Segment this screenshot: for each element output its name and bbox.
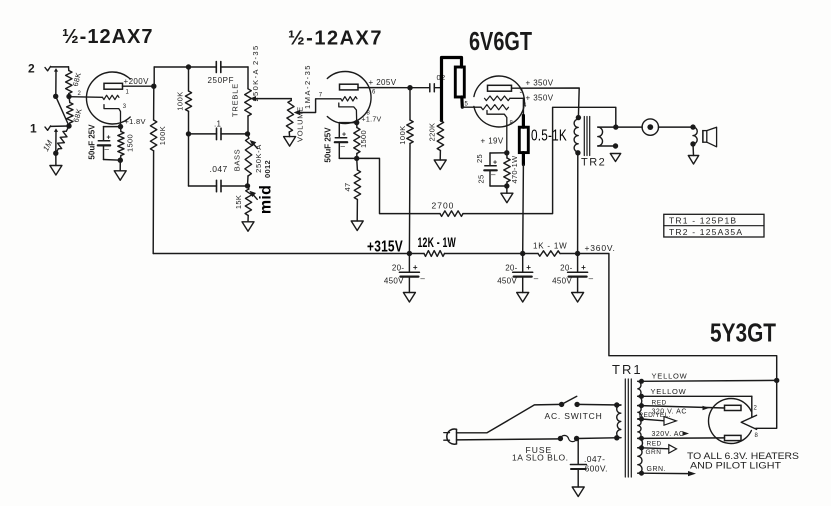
V1 cathode <box>104 105 121 127</box>
wire 250PF to treble <box>221 67 248 89</box>
AC switch blade <box>562 396 577 404</box>
node jack2 shunt <box>53 94 58 99</box>
svg-text:TR2: TR2 <box>581 157 606 169</box>
output jack <box>642 119 658 135</box>
svg-text:AND PILOT LIGHT: AND PILOT LIGHT <box>690 461 781 472</box>
wire to line cap <box>577 439 579 465</box>
label AND PILOT LIGHT <box>690 461 781 472</box>
wire TR2 secondary top <box>598 126 642 128</box>
grid stopper thick wire <box>442 58 462 121</box>
wire 6V6 plate to TR2 <box>512 88 580 118</box>
svg-text:TREBLE: TREBLE <box>231 83 240 117</box>
wire TR2 primary to +360V rail <box>577 153 579 254</box>
resistor 47 <box>354 158 360 221</box>
wire TR2 secondary bottom <box>598 145 616 147</box>
node 6V6 cathode bottom <box>504 183 509 188</box>
label RED/YEL. <box>639 412 671 419</box>
svg-text:.047: .047 <box>210 164 228 174</box>
svg-text:+: + <box>107 135 111 142</box>
svg-text:+: + <box>413 263 418 272</box>
node 6V6 cathode <box>504 150 509 155</box>
wire to 6V6 grid <box>462 106 481 108</box>
wire RED/YEL center tap <box>642 419 665 421</box>
svg-text:+360V.: +360V. <box>585 243 616 253</box>
V1 grid <box>69 95 119 99</box>
resistor 2700 <box>440 211 463 217</box>
svg-text:GRN.: GRN. <box>647 466 667 473</box>
svg-text:YELLOW: YELLOW <box>652 372 688 381</box>
node grid junction V1 <box>66 94 71 99</box>
wire to 250PF <box>189 66 217 68</box>
jack 1 shunt contact <box>54 128 58 153</box>
potentiometer 15K mid <box>245 186 252 222</box>
svg-text:2700: 2700 <box>432 201 455 211</box>
svg-text:.047-: .047- <box>584 454 605 464</box>
ground (TR2 secondary) <box>610 154 620 162</box>
svg-text:YELLOW: YELLOW <box>651 387 687 396</box>
V1 pin 2 <box>78 91 82 97</box>
svg-text:–: – <box>341 142 346 151</box>
label 25 (bottom) <box>476 175 485 184</box>
label +1.7V <box>362 117 382 124</box>
svg-text:47: 47 <box>343 183 352 192</box>
switch contact left <box>559 402 564 407</box>
svg-text:450V: 450V <box>552 277 572 286</box>
capacitor .02 <box>430 84 442 92</box>
label .047- <box>584 454 605 464</box>
label 1M <box>41 139 54 153</box>
node bass bottom <box>245 183 250 188</box>
node V2 cathode bottom <box>354 156 359 161</box>
node TR2 primary bottom <box>575 150 580 155</box>
tube 6V6 envelope <box>474 76 525 127</box>
svg-text:50uF 25V: 50uF 25V <box>323 127 332 163</box>
ground (volume) <box>284 137 296 147</box>
wire B+ rail left <box>153 253 409 255</box>
wire line cap to ground <box>577 469 579 487</box>
svg-text:1K - 1W: 1K - 1W <box>533 242 568 251</box>
label +205V <box>369 78 397 87</box>
V2 plate <box>340 84 359 90</box>
5Y3 pin 8 <box>755 433 759 439</box>
ground (filter 2) <box>517 293 529 303</box>
node TR1 tap y396 <box>639 394 644 399</box>
TR2 primary winding <box>574 119 578 152</box>
svg-text:8: 8 <box>755 433 759 439</box>
6V6 pin 4 <box>523 103 527 109</box>
ground (filter 1) <box>403 293 415 303</box>
label RED (top) <box>652 400 667 407</box>
label 68K (input 1) <box>71 107 83 123</box>
svg-text:3: 3 <box>123 104 127 110</box>
label 320 V. AC (top) <box>652 409 687 416</box>
volume wiper to V2 grid <box>294 99 341 115</box>
wire +360V to rectifier riser <box>578 254 777 429</box>
V2 pin 7 <box>319 93 323 99</box>
label 50uF 25V (V1) <box>87 124 96 160</box>
V1 pin 3 <box>123 104 127 110</box>
capacitor .047-600V <box>570 465 586 470</box>
wire .047 cap right <box>221 185 248 187</box>
wire YELLOW 1 (5V to B+) <box>642 379 777 382</box>
capacitor 250PF <box>216 62 221 73</box>
potentiometer BASS 250K-A <box>245 134 252 186</box>
svg-text:mid: mid <box>258 185 275 214</box>
speaker horn <box>703 127 717 147</box>
svg-text:+: + <box>342 132 346 139</box>
svg-text:15K: 15K <box>234 195 243 209</box>
svg-text:320V. AC: 320V. AC <box>652 431 685 438</box>
svg-text:20-: 20- <box>392 264 404 273</box>
node TR1 primary top <box>614 402 619 407</box>
svg-text:GRN: GRN <box>646 449 662 456</box>
wire rail to 12K <box>409 253 424 255</box>
label +350V (screen) <box>526 94 554 103</box>
label 600V. <box>585 464 608 474</box>
node +205V <box>407 85 412 90</box>
bass wiper <box>250 140 258 149</box>
label TO ALL 6.3V HEATERS <box>687 451 799 462</box>
wire cathode cap bottom <box>104 145 121 160</box>
svg-text:–: – <box>491 170 496 179</box>
arrow mark (top plate feed) <box>703 406 710 411</box>
node speaker top <box>690 124 695 129</box>
capacitor .1 <box>217 128 222 139</box>
capacitor .047 <box>217 180 222 191</box>
wire to 6V6 cathode ground <box>506 186 508 193</box>
label 47 <box>343 183 352 192</box>
wire to V1 cathode ground <box>119 160 121 171</box>
svg-text:5Y3GT: 5Y3GT <box>710 318 776 348</box>
wire cathode cap top <box>104 127 121 141</box>
svg-text:½-12AX7: ½-12AX7 <box>288 28 383 50</box>
ground (V1 cathode) <box>114 171 126 181</box>
wire RED/GRN heater tap <box>642 448 669 449</box>
svg-text:25: 25 <box>476 175 485 184</box>
node V2 cathode <box>354 120 359 125</box>
label .1 <box>214 120 222 129</box>
node treble bottom <box>245 131 250 136</box>
node TR1 primary bottom <box>614 435 619 440</box>
svg-text:–: – <box>105 145 110 154</box>
resistor 1M <box>56 126 69 153</box>
svg-text:½-12AX7: ½-12AX7 <box>62 26 154 48</box>
5Y3 plate (top) <box>725 405 742 410</box>
6V6 pin 3 <box>520 89 524 95</box>
svg-text:2: 2 <box>28 62 35 76</box>
node tone mid junction <box>186 131 191 136</box>
label GRN (heater) <box>646 449 662 456</box>
wire V2 plate to +205V node <box>358 87 410 89</box>
tube 5Y3 envelope <box>709 399 752 444</box>
label 12K - 1W <box>418 235 457 250</box>
node tone stack top <box>186 64 191 69</box>
label 320V. AC (bottom) <box>652 431 685 438</box>
label 1MA-2-35 <box>303 64 312 109</box>
ground (input) <box>50 166 62 176</box>
label 6V6GT <box>469 26 532 56</box>
AC plug <box>444 429 457 444</box>
svg-text:1M: 1M <box>41 139 54 153</box>
label TR1 <box>612 362 643 377</box>
wire 1K to node3 <box>560 253 578 255</box>
wire plug neutral <box>457 439 561 440</box>
label AC. SWITCH <box>545 411 603 421</box>
wire switch to TR1 <box>577 403 621 406</box>
svg-text:6: 6 <box>372 90 376 96</box>
TR1 primary winding <box>617 405 621 438</box>
svg-text:450V: 450V <box>497 277 517 286</box>
label 100K (V1 plate load) <box>158 126 167 146</box>
svg-text:+ 350V: + 350V <box>526 79 554 88</box>
resistor 220K <box>437 121 443 161</box>
node TR2 secondary ground <box>613 143 618 148</box>
svg-text:50uF 25V: 50uF 25V <box>87 124 96 160</box>
tube V2 envelope <box>327 72 371 124</box>
TR1 core <box>625 379 631 477</box>
wire .1 cap right <box>221 133 248 135</box>
V2 pin 8 <box>367 111 371 117</box>
svg-text:–: – <box>534 274 539 283</box>
tube V1 envelope <box>86 72 130 124</box>
label YELLOW 2 <box>651 387 687 396</box>
label .02 <box>437 73 446 82</box>
wire screen resistor to rail <box>522 165 525 254</box>
resistor 100K (V1 plate load) <box>150 86 156 253</box>
node TR1 tap y473 <box>639 471 644 476</box>
label 0.5-1K <box>531 128 567 145</box>
TR2 core <box>584 117 589 156</box>
wire NFB to output jack <box>463 107 616 213</box>
label 470-1W <box>510 155 519 184</box>
svg-text:+ 19V: + 19V <box>481 137 504 146</box>
svg-text:5: 5 <box>465 102 469 108</box>
label 2700 <box>432 201 455 211</box>
svg-text:2: 2 <box>78 91 82 97</box>
label RED (heater) <box>647 441 662 448</box>
6V6 screen grid <box>485 96 511 101</box>
label 68K (input 2) <box>71 71 83 87</box>
svg-text:450V: 450V <box>384 277 404 286</box>
svg-text:20-: 20- <box>560 264 572 273</box>
svg-text:AC. SWITCH: AC. SWITCH <box>545 411 603 421</box>
node jack1 tip <box>66 123 71 128</box>
label 1500 (V1) <box>125 134 134 152</box>
wire RED 320VAC (top plate) <box>642 406 725 408</box>
V2 grid <box>341 97 357 101</box>
label 250PF <box>208 76 235 85</box>
svg-text:3: 3 <box>520 89 524 95</box>
label 5Y3GT <box>710 318 776 348</box>
wire jack2 tip to 68K <box>51 66 69 68</box>
svg-text:100K: 100K <box>175 91 184 111</box>
jack 2 shunt contact <box>54 68 58 96</box>
label .047 <box>210 164 228 174</box>
wire +200V node up <box>154 67 188 86</box>
wire jack to speaker <box>659 126 694 128</box>
capacitor 20uF 450V (filter 1) <box>384 254 426 293</box>
V2 cathode <box>339 103 357 123</box>
grid stopper lower thick wire <box>460 97 464 107</box>
svg-text:+315V: +315V <box>367 239 403 256</box>
capacitor 20uF 450V (filter 2) <box>497 254 539 293</box>
svg-text:250K-A: 250K-A <box>254 144 263 173</box>
label 100K (V2 plate load) <box>398 125 407 145</box>
parts table <box>664 214 764 237</box>
TR1 secondary winding <box>638 381 643 473</box>
label 0012 (bass cap) <box>263 160 272 178</box>
6V6 plate <box>488 85 512 91</box>
fuse element <box>560 435 576 441</box>
V1 plate <box>104 83 123 89</box>
ground (speaker) <box>688 156 698 165</box>
node +315V <box>407 251 412 256</box>
label TREBLE <box>231 83 240 117</box>
label 15K <box>234 195 243 209</box>
svg-text:+: + <box>581 263 586 272</box>
mid wiper <box>249 191 257 200</box>
switch contact right <box>574 402 579 407</box>
node TR1 tap y381 <box>639 379 644 384</box>
svg-text:–: – <box>589 274 594 283</box>
capacitor 50uF 25V (V2) <box>335 132 347 151</box>
svg-text:BASS: BASS <box>232 149 241 171</box>
TR2 secondary winding <box>598 127 603 146</box>
label FUSE <box>526 445 553 455</box>
ground (line cap) <box>572 487 584 497</box>
svg-text:470-1W: 470-1W <box>510 155 519 184</box>
svg-text:250K-A 2-35: 250K-A 2-35 <box>251 44 260 101</box>
node V1 cathode bottom <box>118 158 123 163</box>
svg-text:2: 2 <box>754 406 758 412</box>
screen resistor thick lead top <box>522 116 525 128</box>
fuse contact left <box>558 436 563 441</box>
resistor 12K-1W <box>424 251 445 257</box>
wire jack1 tip <box>51 125 69 127</box>
ground (mid pot) <box>242 222 254 232</box>
svg-text:1A SLO BLO.: 1A SLO BLO. <box>512 453 569 463</box>
label +315V <box>367 239 403 256</box>
label YELLOW 1 <box>652 372 688 381</box>
6V6 pin 8 <box>510 121 514 127</box>
wire 25uF cap top <box>490 153 507 166</box>
svg-text:1MA-2-35: 1MA-2-35 <box>303 64 312 109</box>
svg-text:0012: 0012 <box>263 160 272 178</box>
svg-text:+: + <box>493 160 497 167</box>
svg-text:1500: 1500 <box>125 134 134 152</box>
label 100K (tone slope) <box>175 91 184 111</box>
wire to input ground <box>55 153 57 165</box>
ground (6V6 cathode) <box>501 193 513 203</box>
label mid <box>258 185 275 214</box>
svg-text:1500: 1500 <box>359 130 368 148</box>
label 250K-A (bass) <box>254 144 263 173</box>
potentiometer TREBLE 250K-A <box>245 89 252 134</box>
input jack 2 <box>28 62 51 76</box>
svg-text:TR1: TR1 <box>612 362 643 377</box>
node +360V <box>575 251 580 256</box>
chassis arrow (heater tap) <box>669 445 677 453</box>
wire 25uF cap bottom <box>490 170 507 186</box>
wire NFB from cathode <box>357 158 440 213</box>
svg-text:100K: 100K <box>158 126 167 146</box>
label 50uF 25V (V2) <box>323 127 332 163</box>
label +350V (plate) <box>526 79 554 88</box>
label +19V <box>481 137 504 146</box>
label +1.8V <box>125 117 146 126</box>
svg-text:25: 25 <box>475 154 484 163</box>
svg-text:7: 7 <box>319 93 323 99</box>
resistor 100K (V2 plate load) <box>407 88 413 254</box>
svg-text:RED: RED <box>647 441 662 448</box>
label half-12AX7 stage 2 <box>288 28 383 50</box>
6V6 control grid <box>481 105 509 110</box>
wire fuse to TR1 <box>577 437 621 440</box>
svg-text:TR2 - 125A35A: TR2 - 125A35A <box>669 227 743 237</box>
label +200V <box>124 77 150 86</box>
label 1500 (V2) <box>359 130 368 148</box>
svg-text:–: – <box>420 274 425 283</box>
node screen supply <box>520 251 525 256</box>
arrow mark (bottom plate feed) <box>683 431 690 436</box>
node TR1 tap y447 <box>639 445 644 450</box>
node speaker bottom <box>690 141 695 146</box>
resistor 0.5-1K (thick box) <box>519 127 528 152</box>
label half-12AX7 stage 1 <box>62 26 154 48</box>
svg-text:+ 350V: + 350V <box>526 94 554 103</box>
wire V1 plate to +200V node <box>123 85 154 87</box>
wire jack2-shunt to jack1 node <box>56 96 69 126</box>
ground (220K) <box>434 160 446 170</box>
5Y3 filament <box>741 415 756 429</box>
label 1A SLO BLO. <box>512 453 569 463</box>
svg-text:600V.: 600V. <box>585 464 608 474</box>
node TR1 tap y405 <box>639 403 644 408</box>
wire .1 cap left <box>189 133 217 135</box>
node V1 cathode <box>118 124 123 129</box>
node TR2 primary top <box>576 115 581 120</box>
wire V2 cap top <box>339 123 356 138</box>
label +360V <box>585 243 616 253</box>
node +200V <box>151 84 156 89</box>
wire 12K to node2 <box>445 253 523 255</box>
speaker voice coil <box>693 127 697 144</box>
svg-text:20-: 20- <box>505 264 517 273</box>
wire +205V to .02 cap <box>410 87 429 89</box>
screen resistor thick lead bottom <box>522 153 525 165</box>
wire 320VAC (bottom plate) <box>642 437 725 440</box>
wire node2 to 1K <box>523 253 538 255</box>
label 25 (top) <box>475 154 484 163</box>
wire V2 cap bottom <box>339 142 356 158</box>
node TR1 tap y438 <box>639 436 644 441</box>
svg-text:TR1 - 125P1B: TR1 - 125P1B <box>669 215 737 225</box>
resistor 470-1W <box>504 153 510 186</box>
svg-text:68K: 68K <box>71 71 83 87</box>
potentiometer VOLUME 1M-A <box>286 99 294 137</box>
label 250K-A 2-35 (treble) <box>251 44 260 101</box>
label BASS <box>232 149 241 171</box>
resistor 100K (tone slope) <box>185 67 191 134</box>
svg-text:8: 8 <box>510 121 514 127</box>
svg-text:+ 205V: + 205V <box>369 78 397 87</box>
svg-text:220K: 220K <box>427 123 436 142</box>
wire YELLOW 2 <box>642 396 752 417</box>
ground (filter 3) <box>572 293 584 303</box>
label TR2 <box>581 157 606 169</box>
node TR1 tap y419 <box>639 417 644 422</box>
5Y3 pin 2 <box>754 406 758 412</box>
